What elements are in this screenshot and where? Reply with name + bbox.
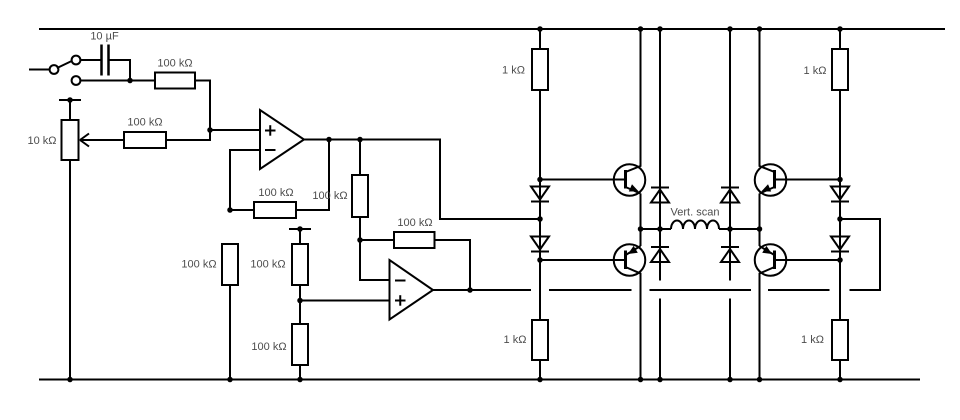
- node U2 inverting junction: [357, 237, 363, 243]
- diode D1: [531, 187, 549, 202]
- resistor R7 100k body: [292, 244, 308, 285]
- transistor Q2 PNP: [614, 229, 646, 380]
- wire capacitor right to junction: [109, 60, 131, 81]
- node U1 output R4 tap: [357, 137, 363, 143]
- resistor R8 100k body: [292, 324, 308, 365]
- node rail junction: [727, 26, 733, 32]
- node midline Q3 emitter: [757, 226, 763, 232]
- svg-text:100 kΩ: 100 kΩ: [250, 259, 285, 271]
- node U1 output junction: [537, 216, 543, 222]
- wire R4 bottom to U2 - node: [359, 217, 361, 240]
- wire left outer column: [539, 29, 541, 320]
- inductor L1 Vert. scan: [671, 221, 719, 230]
- resistor R11 1k body: [832, 49, 848, 90]
- wire node to R3: [230, 209, 254, 211]
- wire column lower part crossing: [729, 299, 731, 380]
- wire divider node to U2 + input: [300, 300, 390, 302]
- wire U1 output run: [304, 140, 540, 220]
- switch SW1 pole contact: [50, 65, 59, 74]
- wire U2 output segment B: [549, 289, 632, 291]
- node op-amp U1 + input: [207, 127, 213, 133]
- wire column lower part crossing: [659, 299, 661, 380]
- svg-text:10 kΩ: 10 kΩ: [27, 135, 56, 147]
- switch SW1 throw contact bottom: [72, 76, 81, 85]
- node midline junction: [727, 226, 733, 232]
- wire R10 to rail: [539, 360, 541, 380]
- svg-text:100 kΩ: 100 kΩ: [181, 259, 216, 271]
- diode D8: [831, 237, 849, 252]
- svg-text:10 µF: 10 µF: [90, 31, 119, 43]
- potentiometer top T terminal: [59, 97, 81, 120]
- svg-text:100 kΩ: 100 kΩ: [312, 190, 347, 202]
- potentiometer wiper arrow: [80, 134, 124, 147]
- wire U2 output segment A: [433, 289, 531, 291]
- wire R5 to U2 output node: [435, 240, 471, 290]
- wire U2 output segment E to loop: [840, 219, 880, 290]
- node rail junction: [727, 377, 733, 383]
- mid divider top T terminal: [289, 226, 311, 244]
- node rail junction Q3 collector: [757, 26, 763, 32]
- svg-text:100 kΩ: 100 kΩ: [397, 217, 432, 229]
- wire + node to op-amp U1: [210, 129, 260, 131]
- wire R1 to op-amp + node: [195, 81, 210, 131]
- transistor Q1 NPN: [614, 29, 646, 229]
- wire U2 output segment D: [768, 289, 830, 291]
- op-amp U1 triangle: [260, 110, 304, 169]
- node junction cap/switch: [127, 78, 133, 84]
- resistor R10 1k body: [532, 320, 548, 360]
- capacitor C1 10uF plates: [102, 45, 109, 76]
- diode D5: [721, 188, 739, 203]
- wire column upper: [729, 29, 731, 229]
- potentiometer P1 10k body: [62, 120, 79, 160]
- wire R6 to ground rail: [229, 285, 231, 380]
- resistor R2 100k wiper body: [124, 132, 166, 148]
- resistor R4 100k body: [352, 175, 368, 217]
- wire switch input lead: [29, 69, 50, 71]
- wire divider node to R8: [299, 301, 301, 325]
- node Q2 base junction: [537, 257, 543, 263]
- wire R2 to + input node: [166, 130, 210, 140]
- svg-text:1 kΩ: 1 kΩ: [804, 65, 827, 77]
- transistor Q4 PNP: [755, 229, 787, 380]
- svg-text:100 kΩ: 100 kΩ: [127, 116, 162, 128]
- resistor R12 1k body: [832, 320, 848, 360]
- op-amp U2 minus mark: [395, 280, 406, 282]
- node rail junction left 1k top: [537, 26, 543, 32]
- node Q4 base junction: [837, 257, 843, 263]
- resistor R5 100k feedback body: [394, 232, 435, 248]
- svg-text:1 kΩ: 1 kΩ: [801, 334, 824, 346]
- diode D7: [831, 187, 849, 202]
- wire midline left of coil: [641, 228, 672, 230]
- op-amp U1 minus mark: [265, 149, 276, 151]
- bottom supply rail: [39, 379, 920, 381]
- op-amp U2 triangle: [390, 260, 434, 320]
- node rail junction right 1k top: [837, 26, 843, 32]
- node rail junction: [837, 377, 843, 383]
- transistor Q3 NPN: [755, 29, 787, 229]
- node rail junction: [537, 377, 543, 383]
- node rail junction Q2 collector: [638, 377, 644, 383]
- wire midline right of coil: [719, 228, 760, 230]
- resistor R9 1k body: [532, 49, 548, 90]
- resistor R3 100k feedback body: [254, 202, 296, 218]
- node Q1 base junction: [537, 177, 543, 183]
- wire column lower upper part: [729, 229, 731, 281]
- svg-text:1 kΩ: 1 kΩ: [502, 65, 525, 77]
- node pot ground junction: [67, 377, 73, 383]
- resistor R6 100k body: [222, 244, 238, 285]
- wire Q2 base: [540, 259, 624, 261]
- wire R8 to ground rail: [299, 365, 301, 380]
- svg-text:100 kΩ: 100 kΩ: [157, 58, 192, 70]
- node midline Q1 emitter: [638, 226, 644, 232]
- wire R7 to divider node: [299, 285, 301, 301]
- node U1 inverting junction: [227, 207, 233, 213]
- op-amp U2 plus mark: [395, 295, 406, 306]
- svg-text:Vert. scan: Vert. scan: [671, 206, 720, 218]
- wire U2 output segment C: [650, 289, 752, 291]
- node rail junction: [657, 377, 663, 383]
- wire column upper: [659, 29, 661, 229]
- switch SW1 blade: [57, 61, 73, 69]
- wire Q4 base: [776, 259, 840, 261]
- wire U1 - input to feedback node: [230, 150, 260, 210]
- diode D2: [531, 237, 549, 252]
- node rail junction Q1 collector: [638, 26, 644, 32]
- diode D6: [721, 247, 739, 262]
- wire column lower upper part: [659, 229, 661, 281]
- wire bottom throw to R1: [80, 80, 155, 82]
- wire Q1 base: [540, 179, 624, 181]
- wire R4 top lead: [359, 140, 361, 176]
- wire top throw to capacitor: [80, 59, 101, 61]
- node U2 output feedback tap: [467, 287, 473, 293]
- wire node to R5: [360, 239, 394, 241]
- svg-text:100 kΩ: 100 kΩ: [251, 341, 286, 353]
- top supply rail: [39, 28, 945, 30]
- wire R12 to rail: [839, 360, 841, 380]
- svg-text:1 kΩ: 1 kΩ: [504, 334, 527, 346]
- node Q3 base junction: [837, 177, 843, 183]
- wire node down to U2 - input: [360, 240, 390, 280]
- wire Q3 base: [776, 179, 840, 181]
- node midline junction: [657, 226, 663, 232]
- diode D4: [651, 247, 669, 262]
- resistor R1 100k body: [155, 73, 195, 89]
- node R6 ground junction: [227, 377, 233, 383]
- op-amp U1 plus mark: [265, 125, 276, 136]
- node rail junction Q4 collector: [757, 377, 763, 383]
- node loop junction: [837, 216, 843, 222]
- wire R3 to U1 output: [296, 140, 329, 211]
- diode D3: [651, 188, 669, 203]
- svg-text:100 kΩ: 100 kΩ: [258, 187, 293, 199]
- node divider U2 + junction: [297, 298, 303, 304]
- node rail junction: [657, 26, 663, 32]
- node R8 ground junction: [297, 377, 303, 383]
- node U1 output feedback tap: [326, 137, 332, 143]
- switch SW1 throw contact top: [72, 56, 81, 65]
- wire pot bottom to ground rail: [69, 160, 71, 380]
- wire right outer column: [839, 29, 841, 320]
